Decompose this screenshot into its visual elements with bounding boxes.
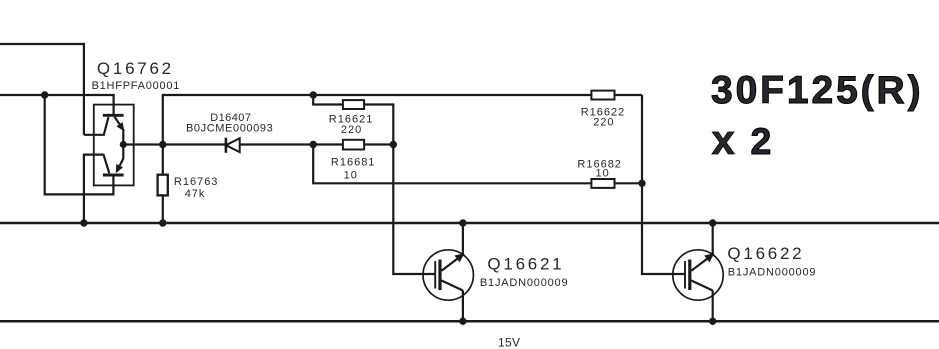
svg-text:R16681: R16681: [331, 157, 376, 169]
svg-text:47k: 47k: [185, 188, 206, 200]
wire: top-left horizontal A with corner down: [0, 44, 84, 135]
svg-text:B1JADN000009: B1JADN000009: [480, 277, 569, 289]
wire: base loop from node A down and around to bottom base: [45, 95, 114, 194]
svg-text:Q16622: Q16622: [727, 244, 804, 263]
wire: Q16762 bottom collector stub to bus: [84, 155, 109, 223]
node: bus1 junction Q16622: [709, 219, 716, 226]
node: base junction on wire B: [41, 91, 48, 98]
node: bus1 junction Q16621: [459, 219, 466, 226]
node: bus2 junction Q16622: [709, 318, 716, 325]
svg-text:B1HFPFA00001: B1HFPFA00001: [92, 80, 181, 92]
wire: Q16621 base wire: [393, 145, 435, 275]
wire: center output wire: [123, 143, 393, 145]
svg-text:Q16762: Q16762: [97, 59, 174, 78]
node: bus2 junction Q16621: [459, 318, 466, 325]
transistor Q16762 upper: base bar: [103, 114, 124, 117]
node: center wire junction before R16681: [310, 141, 317, 148]
svg-text:B0JCME000093: B0JCME000093: [186, 123, 273, 135]
node: bus1 junction R16763: [159, 219, 166, 226]
wire: R16763 bottom lead: [162, 195, 164, 223]
svg-text:2: 2: [751, 120, 772, 162]
transistor Q16622: [673, 223, 723, 321]
node: top wire junction at R16621: [310, 91, 317, 98]
node: center wire junction at R16763: [159, 141, 166, 148]
wire: bus 2 horizontal 15V: [0, 320, 939, 323]
wire: bypass branch through R16682: [313, 145, 642, 184]
svg-text:220: 220: [593, 116, 614, 128]
wire: bus 1 horizontal: [0, 222, 939, 225]
transistor Q16762 upper: emitter with arrow: [114, 117, 124, 145]
transistor pair Q16762 package box: [94, 105, 134, 186]
svg-text:B1JADN000009: B1JADN000009: [728, 266, 817, 278]
svg-text:220: 220: [341, 124, 362, 136]
wire: R16763 top lead: [162, 145, 164, 175]
wire: Q16762 top collector stub: [84, 117, 109, 135]
node: center wire junction after R16681: [390, 141, 397, 148]
svg-text:10: 10: [344, 170, 358, 182]
resistor R16622: [591, 91, 614, 100]
transistor Q16762 lower: emitter with arrow (PNP): [116, 145, 124, 174]
svg-text:Q16621: Q16621: [487, 254, 564, 273]
node: Q16762 emitter junction: [120, 141, 127, 148]
resistor R16763: [158, 175, 168, 196]
svg-text:15V: 15V: [498, 336, 520, 349]
resistor R16621: [343, 100, 364, 109]
wire: vertical from center node up and top horizontal to right corner: [163, 95, 642, 145]
node: junction after R16682: [638, 180, 645, 187]
wire: left horizontal B to top base: [0, 95, 114, 115]
node: bus1 junction left collector: [80, 219, 87, 226]
svg-text:10: 10: [596, 168, 610, 180]
wire: R16621 branch: [313, 95, 393, 145]
resistor R16682: [591, 179, 614, 188]
svg-text:30F125(R): 30F125(R): [711, 69, 924, 112]
resistor R16681: [343, 140, 364, 150]
transistor Q16762 lower: base bar: [103, 174, 124, 177]
svg-text:R16763: R16763: [174, 176, 219, 188]
diode D16407: [226, 138, 240, 153]
wire: right vertical down to Q16622 base: [642, 95, 685, 274]
svg-text:x: x: [712, 116, 736, 163]
transistor Q16621: [423, 223, 473, 321]
